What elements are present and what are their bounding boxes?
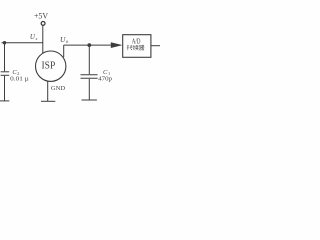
wire: supply rail Us <box>2 42 43 44</box>
wire: A/D output <box>151 45 160 47</box>
sensor ISP circle <box>36 51 66 81</box>
wire: capacitor C1 bottom lead <box>88 79 90 100</box>
svg-text:2: 2 <box>17 71 19 76</box>
node: output / C1 junction <box>87 43 91 47</box>
wire: capacitor C2 top lead <box>4 43 6 72</box>
wire: capacitor C1 top lead <box>88 45 90 74</box>
ground bar below ISP <box>41 100 55 102</box>
char 换 <box>133 45 139 50</box>
capacitor C1 <box>81 74 98 76</box>
wire: +5V terminal down to ISP sensor top <box>42 25 44 53</box>
wire: capacitor C2 bottom lead <box>4 76 6 101</box>
arrow into A/D converter <box>111 42 123 48</box>
svg-text:470p: 470p <box>98 75 112 82</box>
label 转换器 (converter) drawn as paths <box>127 45 145 50</box>
svg-text:0.01 µ: 0.01 µ <box>10 77 29 83</box>
wire: ISP GND lead <box>47 81 49 101</box>
svg-text:A/D: A/D <box>132 36 141 45</box>
svg-text:+5V: +5V <box>34 12 48 21</box>
A/D converter box <box>123 35 151 58</box>
char 转 <box>127 45 133 50</box>
svg-text:s: s <box>36 36 38 41</box>
+5V terminal <box>41 22 45 26</box>
wire: output Uo to A/D <box>64 44 114 46</box>
wire: ISP output up <box>63 45 65 57</box>
svg-text:ISP: ISP <box>42 60 56 71</box>
node: supply rail / C2 junction <box>3 41 6 44</box>
ground bar below C2 <box>0 100 9 102</box>
capacitor C2 <box>1 71 10 73</box>
svg-text:GND: GND <box>51 85 65 92</box>
char 器 <box>139 45 144 50</box>
ground bar below C1 <box>82 99 97 101</box>
